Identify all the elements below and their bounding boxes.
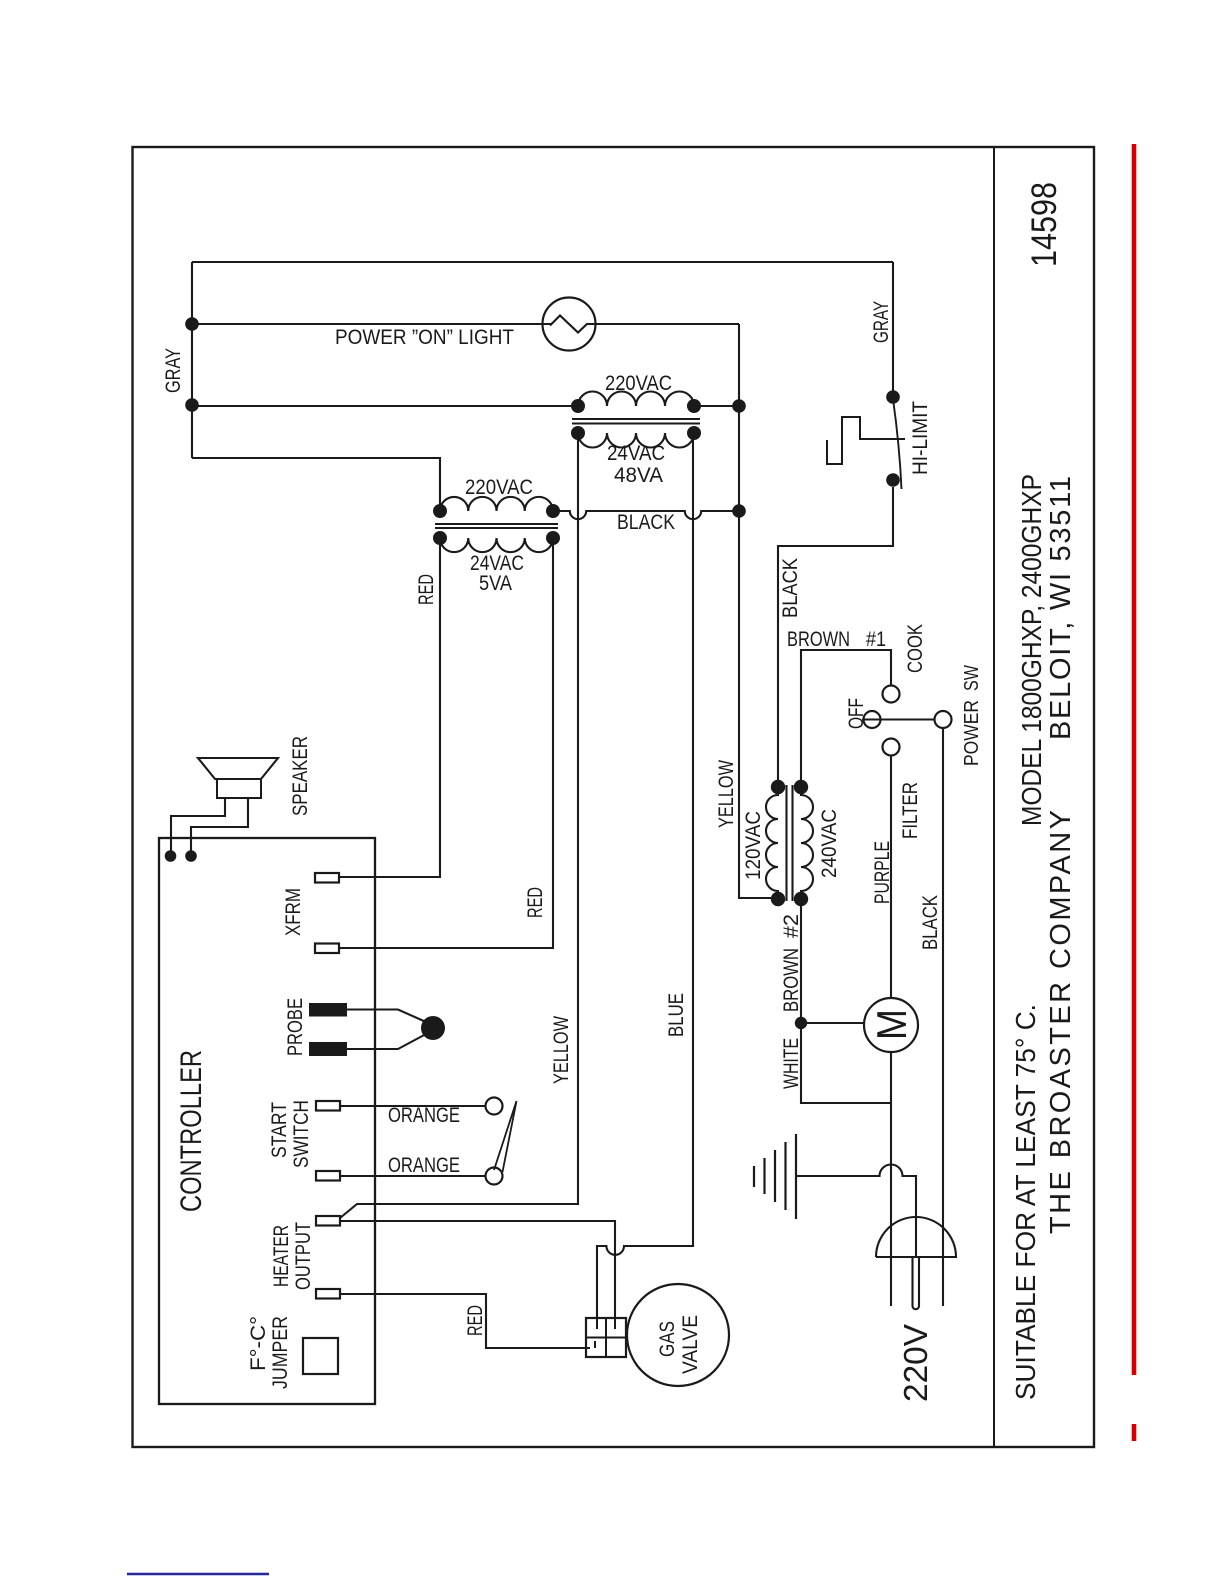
svg-text:220V: 220V xyxy=(897,1324,934,1402)
svg-text:BLACK: BLACK xyxy=(617,511,675,534)
probe terminal 2 (black) xyxy=(309,1042,347,1056)
wire GRAY bus to transformer T2 primary xyxy=(192,458,440,511)
junction GRAY bus / lamp wire xyxy=(185,317,199,331)
plug body 220V xyxy=(876,1217,956,1257)
terminal HEATER OUTPUT 1 xyxy=(316,1216,340,1226)
svg-text:YELLOW: YELLOW xyxy=(550,1016,573,1084)
svg-text:F°-C°: F°-C° xyxy=(247,1316,270,1371)
svg-text:#2: #2 xyxy=(780,914,803,938)
svg-text:5VA: 5VA xyxy=(479,572,512,595)
ground symbol xyxy=(795,1134,797,1219)
wire GRAY vertical bus xyxy=(191,262,193,458)
junction WHITE dot xyxy=(795,1017,807,1029)
svg-text:240VAC: 240VAC xyxy=(818,809,841,878)
wire WHITE to plug left prong xyxy=(801,1023,891,1103)
svg-text:14598: 14598 xyxy=(1025,182,1064,267)
transformer T1 220VAC / 24VAC 48VA xyxy=(578,392,694,407)
svg-text:#1: #1 xyxy=(866,628,886,651)
gas valve xyxy=(627,1284,729,1386)
junction T1 secondary-right rail xyxy=(732,399,746,413)
svg-text:COOK: COOK xyxy=(904,624,927,673)
svg-text:RED: RED xyxy=(524,887,547,918)
gas valve solenoid xyxy=(586,1318,626,1357)
svg-text:SUITABLE FOR AT LEAST 75°: SUITABLE FOR AT LEAST 75° C. xyxy=(1010,1004,1041,1400)
power switch COOK contact xyxy=(883,686,900,703)
wire motor bottom to plug left prong xyxy=(890,1052,892,1306)
wire junction to motor xyxy=(801,1022,864,1024)
svg-text:48VA: 48VA xyxy=(614,464,663,487)
wire RED T2 secondary-right to controller XFRM terminal 2 xyxy=(339,538,553,948)
svg-text:POWER: POWER xyxy=(961,700,983,766)
terminal XFRM 1 xyxy=(315,873,339,883)
svg-text:ORANGE: ORANGE xyxy=(388,1104,460,1127)
svg-text:BLUE: BLUE xyxy=(665,993,688,1037)
svg-text:HEATER: HEATER xyxy=(270,1225,293,1287)
wire BLACK hi-limit to 120VAC coil xyxy=(778,487,893,787)
F-C jumper square xyxy=(303,1338,338,1374)
svg-text:220VAC: 220VAC xyxy=(465,476,533,499)
svg-text:BLACK: BLACK xyxy=(919,895,942,950)
wire BROWN #1 from 240VAC coil to COOK contact xyxy=(801,650,891,787)
svg-text:YELLOW: YELLOW xyxy=(715,760,738,828)
speaker terminal junction dots xyxy=(165,850,177,862)
svg-text:BELOIT, WI 53511: BELOIT, WI 53511 xyxy=(1045,476,1077,740)
svg-text:GRAY: GRAY xyxy=(870,301,893,343)
svg-text:SW: SW xyxy=(961,665,983,691)
junction BLACK wire / drop wire xyxy=(732,504,746,518)
wire PURPLE filter contact to motor xyxy=(890,756,892,999)
power switch OFF contact xyxy=(864,711,881,728)
wire RED T2 secondary-left to controller XFRM terminal 1 xyxy=(339,538,440,877)
plug center prong xyxy=(913,1257,920,1309)
svg-text:START: START xyxy=(268,1102,291,1158)
terminal HEATER OUTPUT 2 xyxy=(316,1289,340,1299)
svg-text:OFF: OFF xyxy=(845,698,868,729)
wire BROWN #2 from 240VAC coil to WHITE junction xyxy=(800,899,802,1023)
motor M xyxy=(864,998,918,1052)
start switch blade xyxy=(494,1101,517,1172)
hi-limit contact dots xyxy=(886,390,900,404)
svg-text:ORANGE: ORANGE xyxy=(388,1154,460,1177)
hi-limit thermal actuator step xyxy=(827,417,905,464)
wire BLUE from T1 secondary to gas valve (hops heater wire) xyxy=(597,433,693,1318)
controller box xyxy=(159,838,375,1404)
svg-text:CONTROLLER: CONTROLLER xyxy=(175,1050,208,1212)
svg-text:MODEL 1800GHXP, 2400GHXP: MODEL 1800GHXP, 2400GHXP xyxy=(1016,474,1047,826)
svg-text:HI-LIMIT: HI-LIMIT xyxy=(909,401,932,475)
wire start switch contact 2 xyxy=(340,1175,486,1177)
svg-text:BROWN: BROWN xyxy=(780,948,803,1012)
svg-text:M: M xyxy=(868,1009,915,1040)
svg-text:GRAY: GRAY xyxy=(162,348,185,393)
svg-text:JUMPER: JUMPER xyxy=(269,1316,292,1389)
wire ground to plug center prong (hops left prong wire) xyxy=(796,1165,916,1258)
wire start switch contact 1 xyxy=(340,1105,486,1107)
speaker wires xyxy=(171,798,225,851)
svg-text:BLACK: BLACK xyxy=(779,558,802,618)
probe wires xyxy=(347,1010,426,1023)
terminal XFRM 2 xyxy=(315,944,339,954)
svg-text:GAS: GAS xyxy=(656,1321,679,1357)
junction GRAY bus / transformer T1 wire xyxy=(185,398,199,412)
wire YELLOW from T1 secondary to heater output terminal xyxy=(340,433,578,1218)
svg-text:SWITCH: SWITCH xyxy=(290,1100,313,1168)
hi-limit blade xyxy=(893,399,902,489)
wire T1 primary feed from GRAY bus xyxy=(192,405,578,407)
start switch contact circle 2 xyxy=(486,1168,503,1185)
svg-text:220VAC: 220VAC xyxy=(605,372,672,395)
wire top rail from GRAY bus to HI-LIMIT xyxy=(192,261,893,263)
power switch blade xyxy=(862,719,935,721)
wire heater output 2 (RED) to gas valve solenoid xyxy=(340,1294,590,1348)
terminal START SWITCH 2 xyxy=(316,1171,340,1181)
wire GRAY drop to 120VAC coil (yellow feeder) xyxy=(739,324,777,898)
svg-text:RED: RED xyxy=(415,574,438,605)
svg-text:POWER ”ON” LIGHT: POWER ”ON” LIGHT xyxy=(335,326,514,349)
start switch contact circle 1 xyxy=(486,1098,503,1115)
wire BLACK power switch to plug right prong xyxy=(942,728,944,1306)
wire lamp line left segment xyxy=(192,323,551,325)
transformer T2 220VAC / 24VAC 5VA xyxy=(440,497,553,511)
svg-text:PROBE: PROBE xyxy=(284,998,307,1056)
wire heater output 1 to gas valve solenoid xyxy=(340,1221,615,1318)
svg-text:PURPLE: PURPLE xyxy=(871,841,894,904)
transformer T3 120VAC / 240VAC xyxy=(766,787,778,899)
svg-text:RED: RED xyxy=(464,1305,487,1336)
svg-text:XFRM: XFRM xyxy=(282,888,305,936)
wire BLACK from T2 primary to drop wire (hops two verticals) xyxy=(553,511,739,519)
power switch common contact xyxy=(935,711,952,728)
svg-text:BROWN: BROWN xyxy=(787,628,850,651)
power switch FILTER contact xyxy=(883,739,900,756)
probe junction dot xyxy=(421,1016,445,1040)
speaker xyxy=(198,758,278,779)
svg-text:VALVE: VALVE xyxy=(679,1315,702,1374)
svg-text:24VAC: 24VAC xyxy=(607,442,665,465)
svg-text:WHITE: WHITE xyxy=(780,1038,803,1089)
svg-text:120VAC: 120VAC xyxy=(742,811,765,880)
svg-text:FILTER: FILTER xyxy=(899,782,922,839)
terminal START SWITCH 1 xyxy=(316,1101,340,1111)
wire T1 primary right to drop xyxy=(694,405,739,407)
hi-limit switch upper wire xyxy=(892,262,894,397)
probe terminal 1 (black) xyxy=(309,1003,347,1017)
svg-text:OUTPUT: OUTPUT xyxy=(292,1222,315,1290)
svg-text:SPEAKER: SPEAKER xyxy=(289,736,312,816)
wire lamp to GRAY drop wire xyxy=(587,323,739,325)
power "on" light lamp xyxy=(543,298,596,351)
